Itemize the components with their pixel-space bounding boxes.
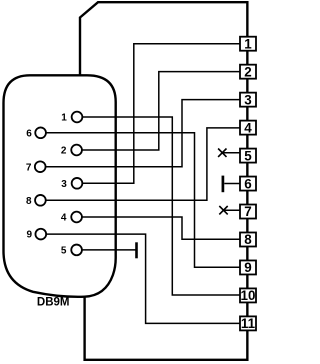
terminal 11 bbox=[240, 316, 256, 330]
svg-text:10: 10 bbox=[241, 288, 256, 303]
svg-text:8: 8 bbox=[244, 232, 252, 247]
wire pin3 to terminal 1 bbox=[82, 44, 240, 184]
svg-text:5: 5 bbox=[244, 148, 252, 163]
terminal 8 bbox=[240, 232, 256, 246]
wire pin7 to terminal 3 bbox=[46, 100, 241, 167]
no-connect X at terminal 7 bbox=[219, 206, 227, 214]
stub terminal 5 bbox=[222, 152, 240, 154]
svg-text:11: 11 bbox=[241, 316, 256, 331]
wire pin6 to terminal 9 bbox=[46, 133, 241, 267]
wire pin1 to terminal 10 bbox=[82, 117, 240, 295]
terminal 6 bbox=[240, 177, 256, 191]
terminal 4 bbox=[240, 121, 256, 135]
svg-text:3: 3 bbox=[61, 179, 67, 190]
pin 5 bbox=[71, 245, 82, 256]
pin 7 bbox=[35, 161, 46, 172]
terminal 1 bbox=[240, 37, 256, 51]
terminal 10 bbox=[240, 288, 256, 302]
svg-text:7: 7 bbox=[26, 162, 32, 173]
pin 4 bbox=[71, 212, 82, 223]
pin 9 bbox=[35, 229, 46, 240]
wire pin8 to terminal 4 bbox=[46, 128, 241, 200]
pin 8 bbox=[35, 195, 46, 206]
stub terminal 7 bbox=[224, 209, 241, 211]
wire pin9 to terminal 11 bbox=[46, 234, 240, 323]
DB9M connector shell bbox=[4, 75, 116, 297]
svg-text:1: 1 bbox=[244, 36, 252, 51]
svg-text:DB9M: DB9M bbox=[37, 296, 70, 308]
svg-text:6: 6 bbox=[26, 128, 32, 139]
svg-text:4: 4 bbox=[244, 120, 252, 135]
svg-text:4: 4 bbox=[61, 213, 67, 224]
svg-text:2: 2 bbox=[61, 146, 67, 157]
termination bar at pin5 bbox=[135, 242, 138, 258]
termination bar at terminal 6 bbox=[222, 176, 225, 193]
svg-text:6: 6 bbox=[244, 176, 251, 191]
svg-text:3: 3 bbox=[244, 92, 251, 107]
pin 3 bbox=[72, 178, 83, 189]
terminal 3 bbox=[240, 93, 256, 107]
terminal 7 bbox=[240, 205, 256, 219]
no-connect X at terminal 5 bbox=[218, 149, 226, 157]
svg-text:8: 8 bbox=[26, 196, 32, 207]
pin 2 bbox=[71, 145, 82, 156]
pin 1 bbox=[72, 112, 83, 123]
svg-text:5: 5 bbox=[61, 246, 67, 257]
pin 6 bbox=[35, 127, 46, 138]
cable/adapter housing outline bbox=[80, 2, 247, 360]
terminal 5 bbox=[240, 149, 256, 163]
svg-text:9: 9 bbox=[244, 260, 251, 275]
terminal 2 bbox=[240, 65, 256, 79]
svg-text:2: 2 bbox=[244, 64, 251, 79]
wire pin2 to terminal 2 bbox=[82, 72, 241, 150]
stub terminal 6 bbox=[224, 183, 240, 185]
svg-text:9: 9 bbox=[26, 230, 32, 241]
wire pin5 stub bbox=[82, 249, 136, 251]
wire pin4 to terminal 8 bbox=[82, 217, 241, 239]
svg-text:7: 7 bbox=[244, 204, 251, 219]
svg-text:1: 1 bbox=[61, 113, 67, 124]
terminal 9 bbox=[240, 260, 256, 274]
